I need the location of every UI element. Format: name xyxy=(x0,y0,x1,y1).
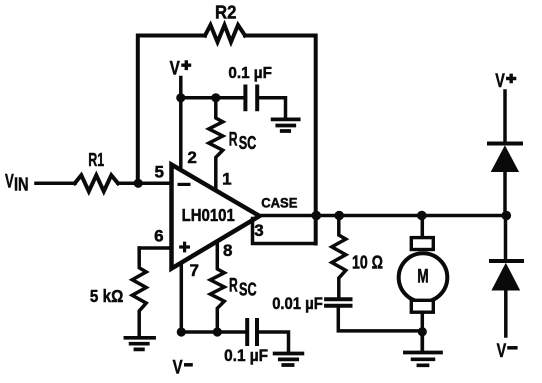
svg-text:V: V xyxy=(497,341,507,362)
svg-text:V: V xyxy=(170,58,180,79)
wire output node to D2 xyxy=(504,216,508,262)
svg-text:0.1 µF: 0.1 µF xyxy=(224,346,268,365)
svg-text:0.1 µF: 0.1 µF xyxy=(228,65,272,82)
svg-text:SC: SC xyxy=(239,280,257,300)
op-amp plus sign xyxy=(179,242,190,253)
junction node R1/feedback xyxy=(134,179,143,188)
junction dot output/motor xyxy=(417,211,427,221)
svg-text:V: V xyxy=(495,71,505,92)
diode D1 cathode bar xyxy=(489,142,521,146)
svg-text:R1: R1 xyxy=(88,150,104,170)
resistor RSC bottom with pin 8 stub xyxy=(210,242,224,332)
wire D2 to V- xyxy=(504,291,508,337)
resistor 5k with stubs xyxy=(132,248,146,335)
wire pin 7 down to V- rail xyxy=(180,260,184,332)
junction dot output/diodes xyxy=(502,211,512,221)
ground top bypass xyxy=(273,119,299,131)
svg-text:10 Ω: 10 Ω xyxy=(352,253,383,273)
wire motor bottom stub xyxy=(421,312,425,332)
junction dot output/feedback xyxy=(312,211,322,221)
svg-text:0.01 µF: 0.01 µF xyxy=(272,294,323,313)
motor M1 body circle xyxy=(399,253,448,302)
capacitor C2 0.1uF bottom plates xyxy=(247,320,257,344)
svg-text:IN: IN xyxy=(14,175,29,195)
resistor R1 xyxy=(75,175,118,191)
svg-text:1: 1 xyxy=(222,170,231,189)
diode D2 cathode bar xyxy=(491,259,522,263)
wire pin 6 xyxy=(139,246,173,250)
junction dot V+ node xyxy=(176,93,185,102)
motor M1 top brush block xyxy=(411,238,433,250)
svg-text:5 kΩ: 5 kΩ xyxy=(90,286,123,306)
svg-text:LH0101: LH0101 xyxy=(182,205,235,225)
wire feedback left vertical + top rail left xyxy=(138,36,205,184)
diode D1 anode triangle xyxy=(491,145,519,172)
wire cap to ground bottom xyxy=(258,332,289,352)
svg-text:7: 7 xyxy=(189,261,198,280)
motor M1 bottom brush block xyxy=(411,300,433,312)
wire motor top stub xyxy=(421,216,425,238)
wire V+ to diode D1 xyxy=(503,91,507,144)
wire output rail xyxy=(260,214,507,218)
svg-text:3: 3 xyxy=(254,221,263,240)
wire VIN to R1 xyxy=(36,182,75,186)
resistor 10 ohm with stubs xyxy=(332,216,346,300)
svg-text:M: M xyxy=(417,266,428,287)
op-amp minus sign xyxy=(178,183,191,186)
resistor R2 xyxy=(205,25,245,42)
svg-text:V: V xyxy=(5,171,14,192)
op-amp U1 LH0101 triangle xyxy=(172,165,260,269)
ground 5k xyxy=(125,338,154,350)
wire D1 to output node xyxy=(503,172,507,216)
ground motor xyxy=(405,332,441,366)
junction dot output/10ohm xyxy=(334,211,344,221)
svg-text:CASE: CASE xyxy=(261,194,297,210)
junction dot RSC top node xyxy=(211,93,220,102)
wire top rail right + down to case box xyxy=(245,36,316,244)
svg-text:5: 5 xyxy=(154,162,163,181)
diode D2 anode triangle xyxy=(491,263,520,291)
svg-text:SC: SC xyxy=(239,133,257,153)
wire R1 to pin 5 xyxy=(118,182,173,186)
wire cap to ground top xyxy=(257,98,285,117)
svg-text:2: 2 xyxy=(187,148,196,167)
wire V+ stub down to pin 2 xyxy=(179,78,183,171)
capacitor C3 0.01uF plates xyxy=(326,299,350,306)
junction dot pin7 rail xyxy=(177,327,186,336)
svg-text:R2: R2 xyxy=(215,3,236,23)
case box pin 3 connection xyxy=(253,219,316,244)
junction dot RSC bottom rail xyxy=(213,327,222,336)
svg-text:R: R xyxy=(229,129,238,150)
svg-text:6: 6 xyxy=(154,226,163,245)
svg-text:R: R xyxy=(229,276,238,297)
capacitor C1 0.1uF top plates xyxy=(245,87,257,110)
wire V- rail xyxy=(181,330,247,334)
ground bottom mid xyxy=(275,354,303,366)
svg-text:V: V xyxy=(173,357,183,378)
resistor RSC top with pin 1 stub xyxy=(209,98,223,191)
junction dot motor bottom xyxy=(418,327,427,336)
svg-text:8: 8 xyxy=(223,241,232,260)
wire V+ node to bypass capacitor xyxy=(181,96,246,100)
wire 0.01uF to motor bottom rail xyxy=(338,306,422,331)
